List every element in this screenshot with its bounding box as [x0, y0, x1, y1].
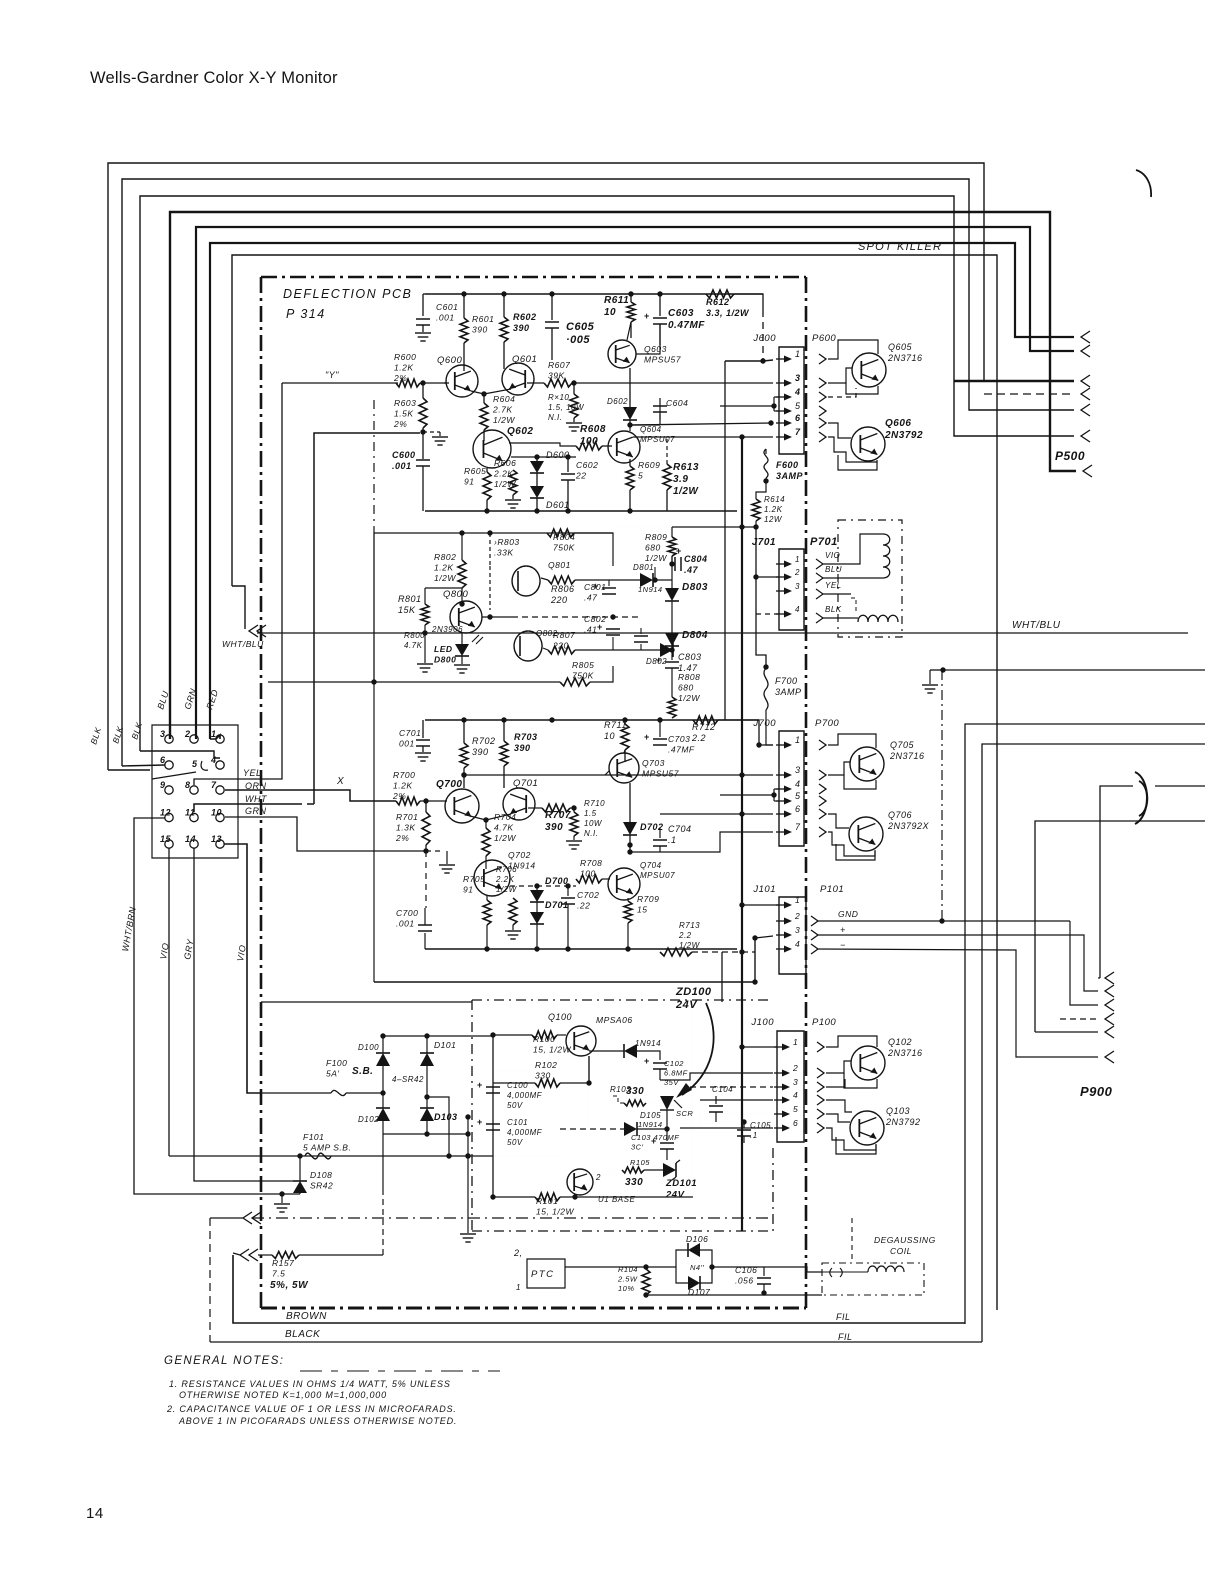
svg-text:C105: C105: [750, 1121, 771, 1130]
bridge rectifier D103: [426, 1097, 428, 1108]
svg-text:+: +: [477, 1117, 483, 1127]
svg-text:10: 10: [604, 731, 615, 741]
ground R801: [417, 663, 433, 665]
svg-text:22: 22: [575, 471, 586, 481]
svg-text:SPOT KILLER: SPOT KILLER: [858, 241, 942, 253]
resistor R700: [396, 797, 420, 805]
wire C804 link: [671, 556, 673, 588]
svg-text:ABOVE 1 IN PICOFARADS UNLESS: ABOVE 1 IN PICOFARADS UNLESS OTHERWISE N…: [178, 1416, 457, 1426]
svg-text:.47: .47: [584, 593, 597, 603]
svg-text:1.5K: 1.5K: [394, 409, 414, 419]
svg-text:50V: 50V: [507, 1101, 523, 1110]
svg-text:1.5: 1.5: [584, 809, 597, 818]
wire R704 Q702: [485, 856, 487, 869]
svg-text:C104: C104: [712, 1085, 733, 1094]
CRT arcs: [1135, 772, 1147, 824]
svg-text:Q800: Q800: [443, 589, 468, 600]
wire C106 right: [764, 1267, 822, 1272]
svg-text:5 AMP S.B.: 5 AMP S.B.: [303, 1143, 351, 1153]
capacitor C802: [612, 637, 614, 650]
SCR Q101: [660, 1096, 674, 1110]
wire R711 Q703: [624, 750, 625, 753]
svg-text:.22: .22: [577, 901, 590, 911]
svg-text:MPSU57: MPSU57: [642, 769, 679, 779]
svg-text:›R803: ›R803: [494, 537, 520, 547]
J700 pin 3: [776, 774, 789, 776]
wire Q703 base: [605, 771, 609, 775]
resistor R702: [463, 720, 465, 743]
svg-text:D800: D800: [434, 655, 456, 665]
capacitor C101: [486, 1123, 500, 1125]
svg-text:12: 12: [160, 808, 171, 818]
resistor R600: [396, 379, 420, 387]
J700 pin 4: [776, 788, 789, 790]
P100 contact 2: [817, 1068, 824, 1078]
P700 contact 4: [819, 784, 826, 794]
ground Q800: [454, 664, 470, 666]
svg-text:R708: R708: [580, 858, 602, 868]
Q800 block outline: [373, 533, 375, 682]
pin 9: [165, 786, 173, 794]
svg-text:2%: 2%: [392, 791, 406, 801]
svg-text:4: 4: [795, 605, 800, 614]
resistor R608: [576, 442, 602, 450]
wire Q602 to R608: [509, 443, 576, 446]
svg-text:1/2W: 1/2W: [645, 553, 667, 563]
svg-text:R800: R800: [404, 631, 425, 640]
wire P700 pin3 to Q705 base: [828, 762, 850, 775]
svg-text:1N914: 1N914: [638, 585, 663, 594]
resistor R703: [503, 720, 505, 741]
transistor Q606: [851, 427, 885, 461]
svg-text:DEFLECTION PCB: DEFLECTION PCB: [283, 287, 412, 301]
resistor R612: [706, 290, 734, 298]
svg-text:C603: C603: [668, 308, 694, 319]
svg-text:.056: .056: [735, 1276, 754, 1286]
capacitor C104: [715, 1096, 717, 1104]
svg-text:39K: 39K: [548, 371, 565, 381]
wire pin14 GRY: [194, 848, 293, 1181]
svg-text:R614: R614: [764, 495, 785, 504]
svg-text:4,000MF: 4,000MF: [507, 1091, 543, 1100]
svg-text:5: 5: [793, 1104, 798, 1114]
svg-text:Q600: Q600: [437, 355, 462, 366]
svg-text:C605: C605: [566, 321, 595, 333]
wire PSU right column: [692, 1000, 694, 1197]
wire R157 right vertical: [299, 1254, 383, 1256]
svg-text:C803: C803: [678, 652, 702, 662]
J701 pin 4: [776, 613, 789, 615]
P100 contact 4: [817, 1095, 824, 1105]
svg-text:R805: R805: [572, 660, 594, 670]
svg-text:N4′′: N4′′: [690, 1263, 704, 1272]
connector J101: [779, 897, 806, 974]
diode D700: [536, 886, 538, 890]
svg-text:WHT: WHT: [245, 794, 268, 804]
J101 pin 1: [776, 904, 789, 906]
svg-text:9: 9: [160, 780, 166, 790]
wire degauss bottom: [646, 1294, 822, 1296]
J101 pin 3: [776, 934, 789, 936]
pin 12: [165, 813, 173, 821]
resistor R808: [668, 697, 676, 718]
svg-text:14: 14: [185, 834, 196, 844]
diode D106: [676, 1250, 688, 1267]
svg-text:+: +: [676, 546, 682, 556]
pin 1: [216, 735, 224, 743]
capacitor C704: [630, 844, 660, 846]
P100 contact 6: [817, 1123, 824, 1133]
wire pin4/5 bracket: [720, 405, 774, 407]
transistor Q101: [567, 1169, 593, 1195]
svg-text:GRN: GRN: [245, 806, 267, 816]
wire right top horizontal: [943, 669, 1205, 671]
svg-text:P100: P100: [812, 1017, 836, 1028]
svg-text:50V: 50V: [507, 1138, 523, 1147]
P700 contact 1: [819, 740, 826, 750]
P600 contact 5: [819, 406, 826, 416]
wire Q700/Q701 collectors: [463, 768, 465, 788]
capacitor C603: [659, 294, 661, 316]
svg-text:R704: R704: [494, 812, 516, 822]
resistor R604: [483, 394, 485, 403]
svg-text:Q606: Q606: [885, 418, 911, 429]
wire emitters X: [470, 814, 511, 820]
wire J700 pin4/5 bracket: [720, 794, 774, 796]
svg-text:.41: .41: [584, 625, 597, 635]
svg-text:Q801: Q801: [548, 560, 571, 570]
svg-text:Q706: Q706: [888, 810, 912, 820]
svg-text:7: 7: [211, 780, 217, 790]
wire Q100 emitter down: [588, 1056, 590, 1083]
svg-text:390: 390: [514, 743, 531, 753]
P700 contact 3: [819, 770, 826, 780]
svg-text:5: 5: [795, 791, 801, 801]
svg-text:X: X: [336, 776, 344, 787]
wire Q103 emitter loop: [836, 1137, 876, 1154]
bridge rectifier D100: [382, 1036, 384, 1053]
svg-text:750K: 750K: [572, 671, 594, 681]
svg-text:J101: J101: [752, 884, 776, 895]
svg-text:C702: C702: [577, 890, 599, 900]
resistor R710: [573, 808, 575, 812]
wire Q101 base row: [559, 1129, 561, 1156]
svg-text:DEGAUSSING: DEGAUSSING: [874, 1235, 936, 1245]
P701 contact VIO: [816, 559, 823, 569]
wire vertical x374: [373, 400, 375, 533]
degaussing coil box: [822, 1263, 924, 1295]
P600 contact 6: [819, 418, 826, 428]
wire Q605 emitter loop: [846, 383, 878, 394]
svg-text:3: 3: [793, 1077, 798, 1087]
J600 pin 3: [776, 382, 789, 384]
fuse F700: [764, 668, 768, 710]
svg-text:R706: R706: [496, 865, 517, 874]
capacitor C701: [422, 720, 424, 738]
svg-text:R710: R710: [584, 799, 605, 808]
svg-text:750K: 750K: [553, 543, 575, 553]
P101 contact 2 GND wire: [811, 916, 818, 926]
svg-text:R613: R613: [673, 462, 699, 473]
svg-text:4,000MF: 4,000MF: [507, 1128, 543, 1137]
wire BLK 1: [108, 769, 150, 771]
svg-text:.001: .001: [392, 461, 412, 471]
capacitor C602: [567, 457, 569, 472]
wire P600 pin6 to Q606 base: [828, 423, 851, 438]
svg-text:4.7K: 4.7K: [494, 823, 514, 833]
resistor R603: [422, 383, 424, 398]
wire WHT/BLU: [232, 586, 245, 629]
wire BLK 3: [140, 751, 220, 758]
svg-text:R607: R607: [548, 360, 570, 370]
svg-text:15K: 15K: [398, 605, 416, 615]
svg-text:GND: GND: [838, 909, 858, 919]
svg-text:MPSA06: MPSA06: [596, 1015, 633, 1025]
svg-text:WHT/BLU: WHT/BLU: [1012, 620, 1061, 631]
svg-text:3: 3: [795, 373, 801, 383]
resistor R611: [630, 294, 632, 302]
svg-text:Q604: Q604: [640, 425, 662, 434]
svg-text:15, 1/2W: 15, 1/2W: [533, 1045, 571, 1055]
wire Q800 supply rail: [672, 526, 756, 528]
svg-text:Q103: Q103: [886, 1106, 910, 1116]
stray arc top right: [1136, 170, 1151, 197]
P600 contact 4: [819, 392, 826, 402]
svg-text:10: 10: [604, 307, 616, 318]
wire PSU top row: [493, 1034, 532, 1036]
svg-text:1: 1: [795, 735, 801, 745]
P600 contact 7: [819, 432, 826, 442]
svg-text:.47MF: .47MF: [668, 745, 695, 755]
capacitor C105 at J100: [741, 1119, 746, 1124]
svg-text:2N3716: 2N3716: [889, 751, 925, 761]
degauss relay contact: [830, 1268, 843, 1277]
diode D601: [536, 473, 538, 486]
wire pin7 feed: [633, 436, 773, 438]
svg-text:+: +: [651, 1136, 657, 1146]
svg-text:.1: .1: [750, 1131, 758, 1140]
J700 pin 7: [776, 831, 789, 833]
svg-text:Q704: Q704: [640, 861, 662, 870]
svg-text:001: 001: [399, 739, 415, 749]
svg-text:2%: 2%: [393, 373, 407, 383]
svg-text:D804: D804: [682, 630, 708, 641]
transistor Q703 arcs: [609, 753, 639, 783]
diode D104: [589, 1050, 624, 1052]
svg-text:R709: R709: [637, 894, 659, 904]
wire zener row: [610, 1170, 624, 1181]
transistor Q701: [503, 788, 535, 820]
svg-text:C804: C804: [684, 554, 708, 564]
faint dash under black: [300, 1370, 500, 1372]
wire P900 dash stub: [1060, 1018, 1098, 1020]
capacitor C106: [763, 1267, 765, 1276]
pin 10: [216, 813, 224, 821]
wire F100 line: [261, 1092, 331, 1094]
wire P100 pin3 stub: [826, 1079, 845, 1087]
resistor R605: [486, 468, 488, 472]
svg-text:1N914: 1N914: [638, 1120, 663, 1129]
svg-text:5: 5: [192, 759, 198, 769]
svg-text:+: +: [644, 311, 650, 321]
svg-text:F600: F600: [776, 460, 799, 470]
transistor Q601: [502, 363, 534, 395]
pin 8: [190, 786, 198, 794]
wire Q800 middle: [482, 616, 512, 618]
svg-text:D700: D700: [545, 876, 569, 886]
svg-text:1/2W: 1/2W: [673, 486, 699, 497]
svg-text:3: 3: [795, 925, 800, 935]
wire BROWN: [233, 1255, 965, 1323]
svg-text:+: +: [644, 732, 650, 742]
svg-text:+: +: [644, 1056, 650, 1066]
svg-text:C601: C601: [436, 302, 458, 312]
wire loop 4 BLU: [170, 212, 1076, 739]
svg-text:5: 5: [795, 401, 801, 411]
transistor Q706: [849, 817, 883, 851]
svg-text:D106: D106: [686, 1234, 708, 1244]
bridge rectifier D101: [426, 1036, 428, 1053]
resistor R610: [573, 383, 575, 394]
svg-text:LED: LED: [434, 644, 453, 654]
P101 contact 3 plus wire: [811, 930, 818, 940]
connector block J: [152, 725, 238, 858]
J100 pin 2: [774, 1072, 787, 1074]
wire Q600/Q601 collectors: [463, 343, 465, 371]
svg-text:R712: R712: [692, 722, 716, 732]
pin 14: [190, 840, 198, 848]
wire pin6 feed: [630, 423, 773, 425]
svg-text:2N3792X: 2N3792X: [887, 821, 930, 831]
svg-text:·005: ·005: [566, 334, 590, 346]
svg-text:C600: C600: [392, 450, 416, 460]
label GND right: [0, 0, 1, 1]
transistor Q704: [608, 868, 640, 900]
svg-text:2N3792: 2N3792: [885, 1117, 921, 1127]
resistor R708: [576, 875, 602, 883]
svg-text:C700: C700: [396, 908, 418, 918]
wire rail to J600 pin1: [734, 294, 763, 310]
transistor Q705: [850, 747, 884, 781]
resistor R104: [645, 1267, 647, 1269]
svg-text:D701: D701: [545, 900, 569, 910]
wire loop 5 GRN: [196, 227, 1074, 739]
svg-text:BLU: BLU: [825, 565, 842, 574]
wire Q606 emitter loop: [838, 455, 877, 470]
PCB border dashed: [261, 276, 806, 279]
svg-text:R105: R105: [630, 1158, 650, 1167]
wire BLACK: [210, 1341, 982, 1343]
resistor R607: [544, 379, 572, 387]
P700 contact 6: [819, 809, 826, 819]
wire YEL pin8: [194, 383, 282, 785]
svg-text:390: 390: [545, 822, 563, 833]
capacitor C105: [743, 1122, 745, 1128]
svg-text:R809: R809: [645, 532, 667, 542]
resistor R801: [424, 588, 426, 604]
resistor R613: [663, 464, 671, 490]
J100 pin 3: [774, 1086, 787, 1088]
pin 11: [190, 813, 198, 821]
svg-text:Wells-Gardner Color X-Y Monito: Wells-Gardner Color X-Y Monitor: [90, 69, 338, 87]
wire J100 pin feeds: [716, 1121, 742, 1123]
wire P600 pin3 to Q605 base: [828, 368, 852, 383]
svg-text:6: 6: [795, 804, 801, 814]
svg-text:220: 220: [550, 595, 568, 605]
capacitor C700: [424, 933, 426, 949]
svg-text:+: +: [656, 655, 662, 665]
svg-text:BLACK: BLACK: [285, 1329, 321, 1340]
wire P100 pin6 to Q103: [826, 1128, 876, 1150]
J600 pin 4: [776, 396, 789, 398]
resistor R157: [258, 1254, 272, 1256]
svg-text:2: 2: [794, 911, 800, 921]
svg-text:YEL: YEL: [243, 768, 262, 778]
svg-text:C802: C802: [584, 614, 606, 624]
svg-text:10: 10: [211, 808, 222, 818]
wire yoke bottom right: [1035, 821, 1205, 1032]
connector J600: [779, 347, 804, 454]
svg-text:R601: R601: [472, 314, 494, 324]
wire Q601 base to R607: [527, 382, 544, 384]
svg-text:5A′: 5A′: [326, 1069, 340, 1079]
svg-text:390: 390: [513, 323, 530, 333]
svg-text:R103: R103: [610, 1085, 631, 1094]
svg-text:F100: F100: [326, 1058, 347, 1068]
svg-text:0.47MF: 0.47MF: [668, 320, 705, 331]
svg-text:R801: R801: [398, 594, 422, 604]
ground R701: [426, 850, 444, 852]
ground D108: [279, 1191, 284, 1196]
wire long ground bus: [246, 956, 248, 958]
svg-text:J700: J700: [752, 718, 776, 729]
svg-text:1/2W: 1/2W: [679, 941, 701, 950]
svg-text:D600: D600: [546, 450, 570, 460]
svg-text:D102: D102: [358, 1115, 379, 1124]
svg-text:C801: C801: [584, 582, 606, 592]
wire D602 to Q604: [629, 420, 631, 431]
svg-text:.1: .1: [668, 835, 677, 845]
svg-text:100: 100: [580, 436, 598, 447]
resistor R807: [543, 648, 548, 650]
svg-text:2N3716: 2N3716: [887, 1048, 923, 1058]
resistor R712: [693, 716, 718, 724]
wire J100 pin1 feed: [742, 1046, 777, 1048]
svg-text:J600: J600: [752, 333, 776, 344]
svg-text:Q102: Q102: [888, 1037, 912, 1047]
svg-text:R701: R701: [396, 812, 418, 822]
svg-text:J701: J701: [752, 537, 776, 548]
wire C603 to Q603 col: [636, 324, 660, 354]
wire dash-dot 1218: [210, 1217, 243, 1219]
svg-text:R608: R608: [580, 424, 606, 435]
svg-text:4: 4: [794, 387, 801, 397]
wire Q701 base R707: [528, 807, 542, 809]
svg-text:R602: R602: [513, 312, 537, 322]
wire P100 pin4 stub: [826, 1100, 852, 1112]
svg-text:3: 3: [160, 729, 166, 739]
J701 pin 3: [776, 590, 789, 592]
svg-text:.001: .001: [436, 313, 455, 323]
connector J701: [779, 549, 804, 630]
pin 3: [165, 735, 173, 743]
capacitor C102: [653, 1062, 667, 1064]
svg-text:4: 4: [210, 755, 217, 765]
svg-text:680: 680: [678, 683, 694, 693]
wire L2 filament: [965, 724, 1205, 1324]
yoke dashed box: [838, 520, 902, 637]
svg-text:R702: R702: [472, 736, 496, 746]
